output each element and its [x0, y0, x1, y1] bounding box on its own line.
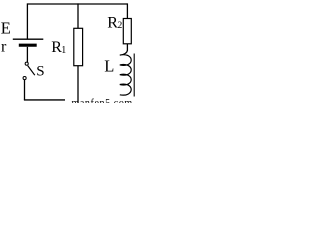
wire R2 top lead: [126, 3, 128, 18]
wire switch to bottom: [24, 80, 26, 100]
inductor L core line: [133, 54, 135, 97]
resistor R1 box: [74, 28, 83, 65]
svg-text:E: E: [1, 19, 11, 38]
svg-text:2: 2: [118, 21, 123, 31]
wire bottom horizontal: [24, 99, 65, 101]
svg-text:S: S: [36, 63, 44, 79]
wire left vertical (top to battery): [26, 3, 28, 38]
svg-text:r: r: [1, 39, 7, 56]
switch S bottom contact circle: [23, 77, 26, 80]
switch S top contact circle: [25, 62, 28, 65]
svg-text:manfen5.com: manfen5.com: [72, 98, 133, 103]
resistor R2 box: [123, 19, 131, 44]
svg-text:1: 1: [61, 45, 66, 56]
battery E r long plate: [13, 38, 44, 40]
wire R1 bottom lead: [77, 66, 79, 103]
wire top horizontal: [27, 3, 127, 5]
battery E r short thick plate: [19, 44, 37, 47]
wire R1 top lead: [77, 3, 79, 28]
wire R2 to inductor: [126, 44, 128, 51]
inductor L coil: [120, 50, 131, 95]
switch S blade: [28, 66, 35, 76]
wire battery to switch: [26, 47, 28, 62]
svg-text:L: L: [104, 57, 114, 76]
